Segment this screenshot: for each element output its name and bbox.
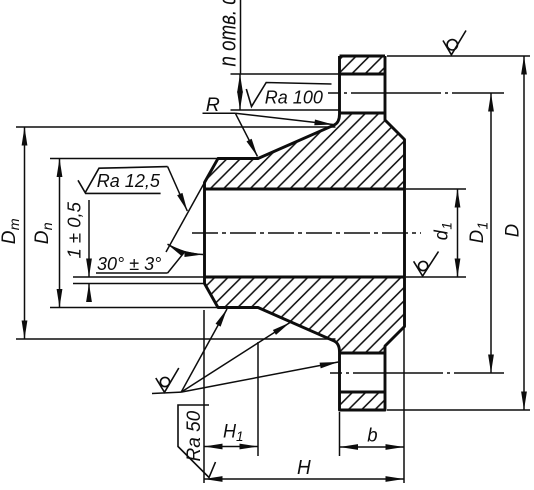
svg-text:R: R xyxy=(206,94,220,116)
svg-text:Ra 12,5: Ra 12,5 xyxy=(97,171,161,191)
svg-text:Ra 50: Ra 50 xyxy=(184,410,205,461)
svg-text:Ra 100: Ra 100 xyxy=(265,88,323,108)
svg-text:1 ± 0,5: 1 ± 0,5 xyxy=(64,201,85,258)
svg-text:H: H xyxy=(297,456,312,479)
svg-text:30° ± 3°: 30° ± 3° xyxy=(97,254,161,274)
svg-text:b: b xyxy=(367,425,377,447)
svg-text:D: D xyxy=(502,224,524,238)
svg-text:n отв. d: n отв. d xyxy=(214,0,241,67)
